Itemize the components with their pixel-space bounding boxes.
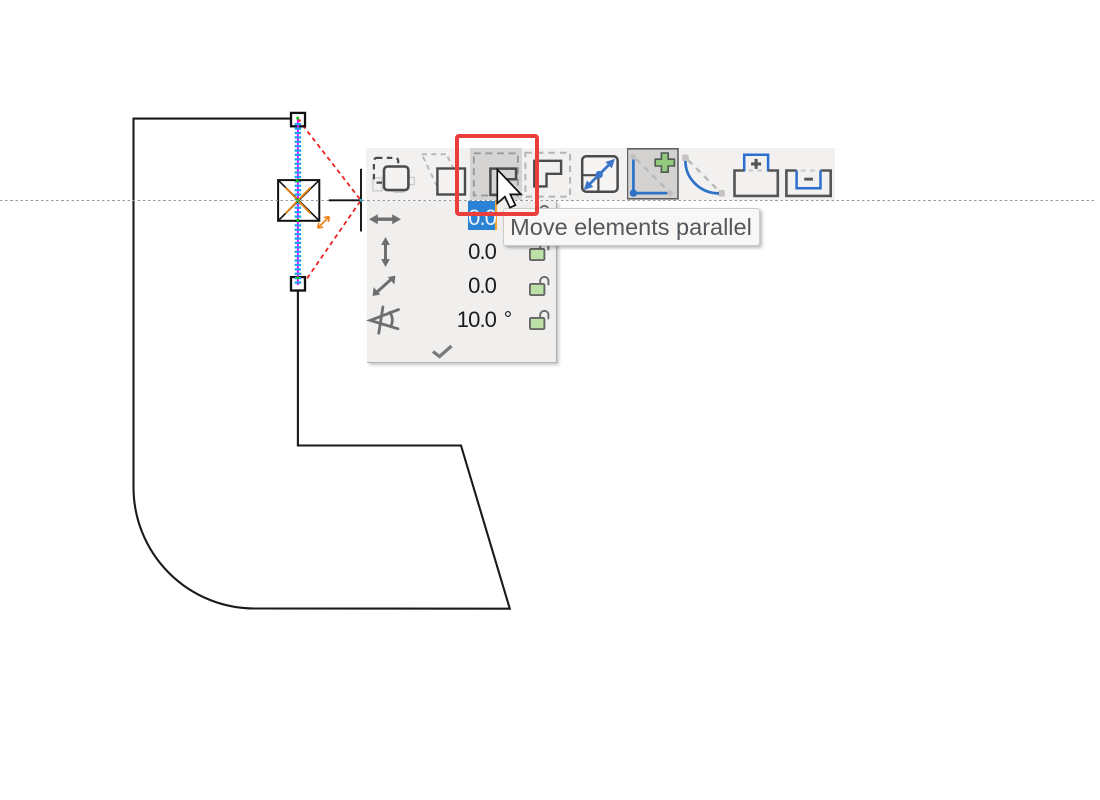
toolbar icon: add material [731, 148, 783, 201]
toolbar icon: add vertex (active cell) [627, 148, 679, 201]
panel icon: angle [364, 304, 402, 336]
lock row4 [529, 309, 551, 330]
crossed reference box [278, 180, 319, 221]
box diagonal black X [279, 181, 318, 220]
selected segment blue dash bars [295, 123, 302, 285]
toolbar icon: move elements [418, 148, 470, 201]
grip handle top [291, 113, 305, 126]
crosshair vertical line [360, 169, 362, 232]
mouse cursor [496, 168, 524, 210]
grip handle bottom [291, 277, 305, 290]
value angle text [396, 305, 496, 335]
toolbar icon: move elements perpendicular [522, 148, 574, 201]
green snap dot in top handle [296, 117, 299, 120]
toolbar icon: subtract material [783, 148, 835, 201]
panel icon: diagonal distance [370, 273, 398, 299]
panel icon: horizontal distance [368, 211, 402, 227]
lock row3 [529, 275, 551, 296]
selected segment magenta core [297, 118, 299, 286]
value length text [396, 271, 496, 301]
construction dash-dot line [0, 200, 1096, 202]
toolbar icon: fillet corner [679, 148, 731, 201]
red dot in top handle [298, 119, 301, 122]
green snap dot at bottom handle [296, 276, 299, 279]
box inner orange X [286, 188, 311, 214]
toolbar icon: move elements parallel (active cell) [470, 148, 522, 201]
text caret [495, 201, 497, 230]
crosshair horizontal + snap dot [326, 194, 368, 206]
toolbar icon: resize [574, 148, 626, 201]
toolbar [366, 148, 835, 201]
value field X (selected) [468, 201, 496, 230]
lock row1 (hidden behind tooltip) [529, 204, 551, 225]
orange resize glyph [318, 217, 330, 229]
red dashed guide from bottom handle [303, 201, 361, 285]
polyline profile [134, 119, 510, 609]
confirm checkmark [430, 342, 456, 360]
degree symbol [500, 305, 516, 335]
lock row2 [529, 240, 551, 261]
tooltip [503, 208, 760, 246]
red highlight box [455, 134, 539, 216]
toolbar icon: copy elements [366, 148, 418, 201]
value X text [396, 203, 496, 233]
value Y text [396, 237, 496, 267]
green node dots on box [296, 199, 299, 202]
panel icon: vertical distance [378, 236, 394, 268]
red dashed guide from top handle [303, 125, 361, 200]
parameter panel [367, 201, 558, 364]
